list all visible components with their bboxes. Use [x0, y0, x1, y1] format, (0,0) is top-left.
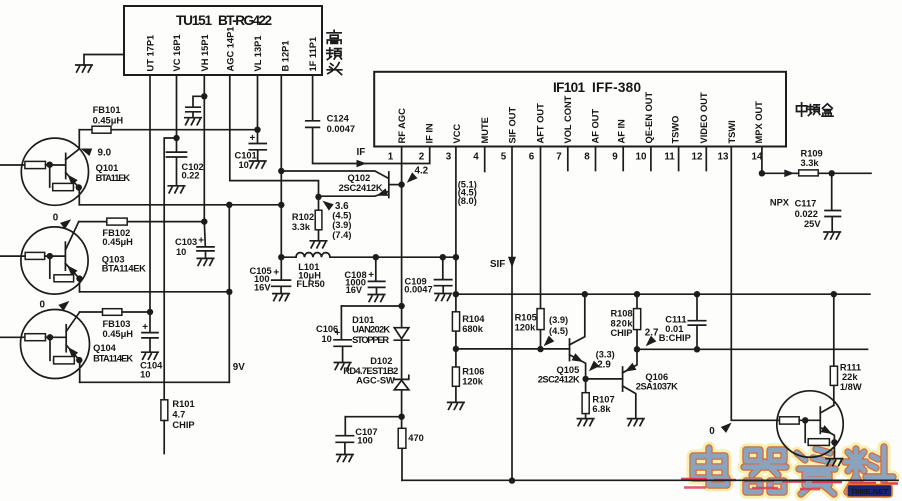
wire VL 13P1 down: [257, 75, 259, 130]
svg-text:120k: 120k: [462, 376, 484, 386]
svg-text:13: 13: [718, 152, 729, 163]
svg-text:STOPPER: STOPPER: [352, 335, 389, 345]
transistor Q103 BTA114EK: [0, 222, 88, 294]
svg-text:BTA11EK: BTA11EK: [96, 173, 131, 183]
resistor 470: [398, 417, 424, 481]
transistor Q104 BTA114EK: [0, 310, 90, 383]
node B/Q102 collector: [278, 168, 284, 174]
svg-text:10: 10: [239, 160, 249, 170]
svg-text:0: 0: [53, 213, 59, 224]
IC pin label 6 AFT OUT: [535, 103, 545, 144]
svg-text:0.0047: 0.0047: [404, 284, 432, 294]
transistor Q107 (switch): [777, 391, 843, 458]
IC pin 12 stub: [705, 147, 707, 171]
capacitor C104: [140, 312, 163, 379]
wire 1F 11P1 to C124: [312, 75, 314, 120]
svg-text:IF IN: IF IN: [425, 123, 435, 143]
IC pin label 7 VOL CONT: [563, 95, 573, 143]
ferrite bead FB101: [92, 105, 123, 133]
node R109/C117: [829, 170, 835, 176]
svg-text:TU151: TU151: [176, 13, 212, 28]
IC pin label 4 MUTE: [480, 117, 490, 143]
wire VC 16P1 down: [176, 75, 178, 138]
svg-text:Q101: Q101: [96, 163, 119, 173]
svg-text:AF OUT: AF OUT: [591, 109, 601, 144]
svg-text:4.7: 4.7: [172, 410, 185, 420]
svg-text:16V: 16V: [254, 282, 271, 292]
IC pin label 11 TSWO: [670, 116, 680, 144]
svg-text:NPX: NPX: [770, 198, 790, 208]
svg-text:BT-RG422: BT-RG422: [218, 13, 272, 28]
wire B 12P1 down to supply rail: [280, 75, 282, 257]
probe arrow 4.2 at Q102 base: [404, 166, 429, 186]
svg-text:VIDEO OUT: VIDEO OUT: [699, 92, 709, 143]
node B/9V row: [278, 202, 284, 208]
arrow IF direction: [357, 160, 367, 168]
ground Q106 collector: [628, 419, 644, 426]
IC pin numbers 1-14: [388, 152, 763, 163]
tuner title TU151 BT-RG422: [176, 13, 272, 28]
tuner pin label UT 17P1: [146, 35, 156, 72]
capacitor C102: [167, 138, 204, 185]
ground C109: [435, 294, 451, 301]
svg-text:6: 6: [529, 152, 535, 163]
svg-text:(3.9): (3.9): [332, 220, 351, 230]
tuner pin label B 12P1: [280, 40, 290, 71]
probe arrow 2.7 at Q106 emitter node: [643, 327, 659, 349]
wire VCC bus: [456, 293, 870, 295]
node bus/R104: [453, 291, 459, 297]
svg-text:AFT OUT: AFT OUT: [535, 103, 545, 144]
IC pin 11 stub: [678, 147, 680, 171]
wire FB102 row: [79, 221, 205, 223]
probe arrow 0 at Q103: [53, 213, 74, 230]
IC pin 9 stub: [622, 147, 624, 171]
resistor R105 from pin6: [515, 147, 545, 350]
svg-text:8: 8: [584, 152, 590, 163]
svg-text:(3.9): (3.9): [549, 315, 568, 325]
wire VCC pin3 line: [455, 147, 457, 295]
svg-text:UT 17P1: UT 17P1: [146, 35, 156, 72]
watermark 电器资料 core strokes: [693, 447, 893, 494]
svg-text:TSWI: TSWI: [727, 120, 737, 143]
wire AGC 14P1 to Q102 emitter node: [230, 75, 319, 197]
capacitor C117: [795, 173, 841, 231]
svg-text:C111: C111: [665, 315, 686, 325]
node C111/row: [694, 346, 700, 352]
svg-text:AGC-SW: AGC-SW: [356, 375, 395, 385]
wire C106 row: [341, 305, 401, 307]
svg-text:1: 1: [388, 152, 394, 163]
node VH/FB102/C103 junction: [201, 218, 207, 224]
svg-text:7: 7: [556, 152, 562, 163]
svg-text:D102: D102: [370, 356, 392, 366]
svg-text:820k: 820k: [611, 318, 634, 328]
svg-text:QE-EN OUT: QE-EN OUT: [644, 92, 654, 144]
wire bottom rail: [402, 479, 898, 481]
ground R107: [577, 419, 593, 426]
capacitor C111: [659, 294, 706, 349]
svg-text:Q104: Q104: [93, 343, 117, 353]
label IF: [357, 147, 366, 158]
watermark badge TIIME.NET: [847, 485, 892, 498]
watermark red dashes: [681, 479, 898, 489]
node C111/bus: [694, 291, 700, 297]
node D102/C107/470: [398, 414, 404, 420]
IC pin label 9 AF IN: [616, 119, 626, 144]
arrow SIF direction: [490, 257, 516, 270]
svg-text:(7.4): (7.4): [332, 230, 351, 240]
wire L101 rail: [281, 256, 456, 258]
ground C108: [368, 295, 384, 302]
svg-text:12: 12: [692, 152, 703, 163]
svg-text:0.0047: 0.0047: [327, 124, 355, 134]
ground C117: [824, 232, 840, 239]
diode D101 UAN202K: [352, 306, 409, 379]
svg-text:SIF: SIF: [490, 259, 505, 270]
capacitor C124: [306, 114, 355, 134]
ground R102: [310, 241, 326, 248]
node UT/FB103 junction: [147, 309, 153, 315]
IC pin label 14 MPX OUT: [754, 101, 764, 144]
probe arrow 0 at Q107 base line: [709, 420, 734, 437]
resistor R106: [452, 349, 484, 402]
svg-text:9V: 9V: [233, 362, 245, 373]
svg-text:C117: C117: [795, 198, 817, 208]
node pin14 corner: [759, 170, 765, 176]
svg-text:0.022: 0.022: [795, 209, 818, 219]
svg-text:25V: 25V: [804, 219, 821, 229]
svg-text:10: 10: [636, 152, 647, 163]
ground C102: [168, 186, 184, 193]
wire UT 17P1 down: [149, 75, 151, 312]
capacitor C106: [316, 306, 351, 362]
svg-text:2.7: 2.7: [645, 327, 659, 338]
probe arrow (3.3) 2.9 at Q105 emitter: [586, 349, 615, 374]
svg-text:VH 15P1: VH 15P1: [200, 34, 210, 71]
wire RF AGC pin1 line: [401, 147, 403, 307]
node SIF/bottom rail: [509, 477, 515, 483]
svg-text:R101: R101: [172, 399, 194, 409]
wire VH 15P1 down: [203, 75, 205, 222]
IC pin label 2 IF IN: [425, 123, 435, 143]
svg-text:+: +: [250, 133, 256, 144]
label NPX: [770, 198, 790, 208]
node R104/R106 row: [453, 346, 459, 352]
probe arrow 3.6 at R102 top: [320, 198, 351, 240]
transistor Q106 2SA1037K: [623, 349, 637, 418]
svg-text:2: 2: [419, 152, 425, 163]
svg-text:B 12P1: B 12P1: [280, 40, 290, 71]
svg-text:9: 9: [612, 152, 618, 163]
svg-text:+: +: [198, 236, 204, 247]
IC pin 8 stub: [595, 147, 597, 171]
ground C104: [142, 352, 158, 359]
tuner module TU151 box: [124, 6, 322, 75]
capacitor C107: [336, 417, 377, 454]
svg-text:0: 0: [709, 426, 715, 437]
transistor Q105 2SC2412K: [570, 294, 586, 379]
svg-text:MPX OUT: MPX OUT: [754, 101, 764, 144]
node C109: [440, 254, 446, 260]
ground Q107 emitter: [826, 459, 842, 466]
svg-text:VL 13P1: VL 13P1: [253, 35, 263, 71]
wire C107 row: [345, 416, 401, 418]
resistor R109: [799, 148, 823, 176]
label 高频头 drawn strokes: [327, 30, 342, 74]
svg-text:+: +: [368, 270, 374, 281]
svg-text:5: 5: [501, 152, 507, 163]
probe arrow 9.0 at Q101 collector: [79, 145, 112, 159]
svg-text:IF: IF: [357, 147, 366, 158]
wire VC node to R101 column: [164, 138, 176, 400]
svg-text:1F 11P1: 1F 11P1: [308, 37, 318, 72]
node AGC/R102/emitter: [315, 194, 321, 200]
node Q105 collector/bus: [582, 291, 588, 297]
svg-text:3.3k: 3.3k: [292, 222, 311, 232]
node 9V/Q103 row: [226, 289, 232, 295]
svg-text:Q106: Q106: [645, 372, 668, 382]
svg-text:0.45μH: 0.45μH: [103, 329, 134, 339]
svg-text:0.45μH: 0.45μH: [93, 115, 124, 125]
inductor L101: [296, 253, 330, 289]
svg-text:R102: R102: [292, 212, 314, 222]
IC pin label 1 RF AGC: [397, 108, 407, 144]
node Q105 emitter: [582, 376, 588, 382]
svg-text:0.45μH: 0.45μH: [102, 237, 133, 247]
label Q105: [538, 365, 580, 384]
svg-text:CHIP: CHIP: [611, 328, 633, 338]
label Q106: [636, 372, 678, 392]
svg-text:4: 4: [473, 152, 479, 163]
svg-text:TSWO: TSWO: [670, 116, 680, 144]
node 9V column top: [226, 202, 232, 208]
capacitor C101: [235, 130, 267, 170]
capacitor C108: [344, 257, 384, 295]
label 中频盒 drawn strokes: [797, 103, 834, 116]
svg-text:3.3k: 3.3k: [801, 158, 820, 168]
svg-text:AF IN: AF IN: [616, 119, 626, 144]
svg-text:10: 10: [176, 247, 186, 257]
watermark 电器资料 outline strokes: [693, 447, 893, 494]
wire Q104 emitter row: [80, 381, 230, 383]
watermark glow backdrop: [693, 447, 893, 494]
node R108/bus: [634, 291, 640, 297]
svg-text:R109: R109: [801, 148, 823, 158]
IC pin label 3 VCC: [452, 124, 462, 144]
svg-text:6.8k: 6.8k: [592, 404, 611, 414]
resistor R107: [582, 379, 615, 418]
IC pin 4 stub: [484, 147, 486, 172]
svg-text:TIIME.NET: TIIME.NET: [851, 487, 889, 496]
svg-text:680k: 680k: [462, 324, 484, 334]
node B/L101 rail: [278, 254, 284, 260]
svg-text:0.22: 0.22: [182, 170, 200, 180]
label Q104: [93, 343, 133, 364]
node VL/FB101/C101 junction: [254, 127, 260, 133]
svg-text:D101: D101: [352, 315, 374, 325]
svg-text:VCC: VCC: [452, 124, 462, 144]
svg-text:22k: 22k: [842, 372, 858, 382]
svg-text:BTA114EK: BTA114EK: [93, 353, 133, 363]
resistor R111: [830, 294, 862, 405]
svg-text:AGC 14P1: AGC 14P1: [225, 27, 235, 72]
svg-text:+: +: [142, 322, 148, 333]
svg-text:4.2: 4.2: [415, 166, 429, 177]
svg-text:C101: C101: [235, 150, 257, 160]
voltage list at pin3: [458, 179, 477, 206]
svg-text:FB103: FB103: [103, 319, 131, 329]
ground R106: [448, 402, 464, 409]
transistor Q101 BTA11EK: [0, 130, 89, 206]
node bus/R111: [831, 291, 837, 297]
svg-text:Q102: Q102: [348, 173, 371, 183]
svg-text:VOL CONT: VOL CONT: [563, 95, 573, 143]
ground C106: [334, 363, 350, 370]
IC pin label 8 AF OUT: [591, 109, 601, 144]
svg-text:BTA114EK: BTA114EK: [102, 264, 146, 274]
wire QE row right: [637, 348, 868, 350]
svg-text:C103: C103: [175, 237, 197, 247]
svg-text:120k: 120k: [515, 322, 537, 332]
svg-text:100: 100: [357, 435, 373, 445]
label Q103: [102, 254, 146, 273]
node R105/Q105 base: [537, 346, 543, 352]
node C108: [373, 254, 379, 260]
IC pin label 12 VIDEO OUT: [699, 92, 709, 143]
diode D102 RD4.7 zener: [343, 356, 409, 417]
svg-text:RD4.7EST1B2: RD4.7EST1B2: [343, 366, 398, 376]
resistor R104: [452, 294, 485, 349]
svg-text:9.0: 9.0: [98, 147, 112, 158]
IC pin label 10 QE-EN OUT: [644, 92, 654, 144]
IF module IF101 box: [374, 72, 786, 147]
wire IF signal line to IC pin2: [313, 129, 430, 164]
probe arrow 0 at Q104: [40, 298, 72, 311]
svg-text:B:CHIP: B:CHIP: [659, 333, 691, 343]
svg-text:C124: C124: [327, 114, 350, 124]
ferrite bead FB102: [102, 218, 133, 247]
label 9V: [233, 362, 245, 373]
ground VH bypass: [185, 118, 201, 125]
svg-text:R111: R111: [840, 362, 861, 372]
svg-text:(4.5): (4.5): [549, 326, 568, 336]
node R108/Q106 emitter: [634, 346, 640, 352]
capacitor C109: [404, 257, 452, 294]
arrow MPX direction: [784, 170, 794, 178]
svg-text:10: 10: [322, 334, 332, 344]
tuner pin label VC 16P1: [172, 34, 182, 71]
svg-text:R107: R107: [592, 395, 614, 405]
svg-text:VC 16P1: VC 16P1: [172, 34, 182, 71]
resistor R108: [611, 294, 641, 349]
svg-text:SIF OUT: SIF OUT: [508, 107, 518, 144]
svg-text:IFF-380: IFF-380: [592, 80, 641, 95]
IC pin label 13 TSWI: [727, 120, 737, 143]
svg-text:2SA1037K: 2SA1037K: [636, 381, 678, 391]
tuner pin label 1F 11P1: [308, 37, 318, 72]
resistor R102: [292, 197, 322, 241]
ground C105: [273, 294, 289, 301]
label Q101: [96, 163, 131, 183]
svg-text:R106: R106: [462, 367, 484, 377]
ferrite bead FB103: [103, 309, 134, 339]
node pin1/C106 row: [398, 303, 404, 309]
bypass capacitor at VH pin: [186, 96, 205, 117]
ground C103: [197, 258, 213, 265]
svg-text:(8.0): (8.0): [458, 196, 477, 206]
wire Q105 emitter to Q106 base: [586, 378, 622, 380]
wire 9V column: [228, 205, 230, 382]
svg-text:RF AGC: RF AGC: [397, 108, 407, 144]
wire Q105 base row: [456, 348, 570, 350]
wire SIF pin5 line: [511, 147, 513, 481]
svg-text:3: 3: [446, 152, 452, 163]
svg-text:MUTE: MUTE: [480, 117, 490, 143]
ground C101: [250, 161, 266, 168]
node Q102 base / pin1: [398, 181, 404, 187]
svg-text:10: 10: [140, 369, 150, 379]
svg-text:FB101: FB101: [93, 105, 121, 115]
svg-text:470: 470: [408, 433, 424, 443]
svg-text:CHIP: CHIP: [172, 420, 194, 430]
wire FB101 row: [79, 129, 257, 131]
svg-text:16V: 16V: [346, 285, 363, 295]
svg-text:+: +: [273, 268, 279, 279]
probe arrow (3.9)(4.5) at Q105 base: [541, 315, 568, 349]
svg-text:R104: R104: [462, 314, 485, 324]
wire tuner left to ground: [84, 55, 124, 66]
svg-text:11: 11: [664, 152, 675, 163]
IC pin label 5 SIF OUT: [508, 107, 518, 144]
IC title IF101 IFF-380: [553, 80, 641, 95]
tuner pin label AGC 14P1: [225, 27, 235, 72]
svg-text:2SC2412K: 2SC2412K: [339, 183, 383, 193]
IC pin 7 stub: [567, 147, 569, 171]
tuner pin label VL 13P1: [253, 35, 263, 71]
svg-text:R108: R108: [611, 309, 633, 319]
svg-text:1/8W: 1/8W: [840, 382, 862, 392]
svg-text:0: 0: [40, 299, 46, 310]
svg-text:2SC2412K: 2SC2412K: [538, 374, 580, 384]
capacitor C105: [250, 257, 291, 293]
wire MPX pin14 output: [762, 147, 871, 174]
IC pin 10 stub: [650, 147, 652, 171]
wire Q103 emitter row: [80, 291, 230, 293]
ground C107: [337, 455, 353, 462]
node VC/C102 junction: [173, 135, 179, 141]
svg-text:UAN202K: UAN202K: [352, 325, 390, 335]
resistor R101: [161, 399, 195, 454]
svg-text:IF101: IF101: [553, 80, 585, 95]
tuner pin label VH 15P1: [200, 34, 210, 71]
svg-text:FLR50: FLR50: [296, 279, 324, 289]
wire FB103 row: [80, 311, 150, 313]
svg-text:(4.5): (4.5): [332, 210, 351, 220]
capacitor C103: [175, 222, 214, 258]
wire TSWI pin13 to Q107 base: [731, 147, 779, 421]
svg-text:C106: C106: [316, 324, 338, 334]
wire 9V row (Q101 emitter to B): [79, 204, 281, 206]
node VH bypass junction: [201, 93, 207, 99]
ground tuner left: [76, 65, 92, 72]
svg-text:(3.3): (3.3): [596, 349, 615, 359]
svg-text:2.9: 2.9: [597, 360, 611, 371]
label Q102: [339, 173, 383, 193]
svg-text:R105: R105: [515, 312, 537, 322]
transistor Q102 2SC2412K: [281, 171, 401, 199]
node VCC/rail: [453, 254, 459, 260]
